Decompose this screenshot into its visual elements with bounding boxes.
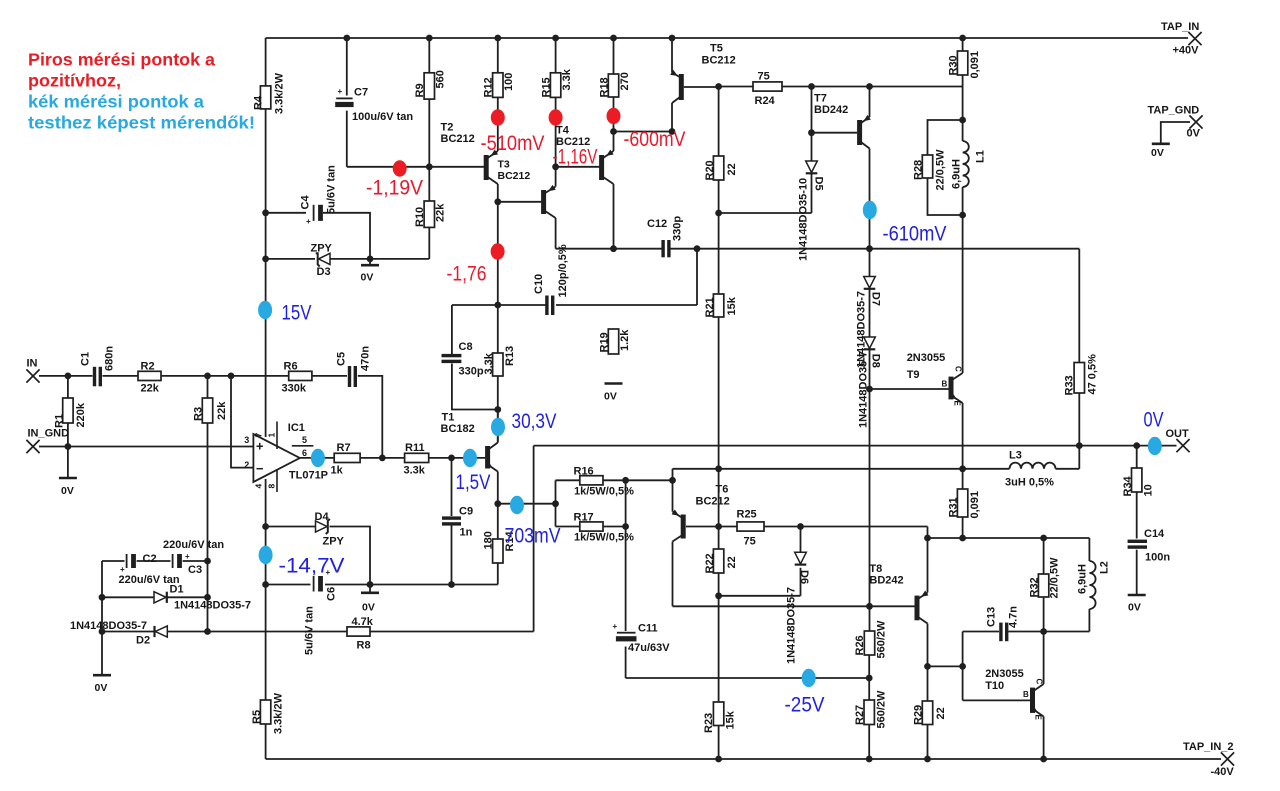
wire R34 top [1136, 446, 1138, 468]
junction ZPY row [262, 256, 269, 263]
svg-text:C5: C5 [336, 352, 348, 366]
svg-text:6: 6 [302, 448, 307, 458]
junction R9/R10 base row [426, 163, 433, 170]
transistor T5 BC212 [670, 70, 684, 103]
wire C2 row [102, 560, 125, 562]
wire R3 bottom long [207, 423, 209, 561]
svg-text:C8: C8 [459, 341, 473, 353]
svg-text:0,091: 0,091 [969, 491, 981, 519]
wire D1 row right [167, 596, 207, 598]
svg-text:Piros mérési pontok a: Piros mérési pontok a [28, 50, 215, 70]
transistor T8 BD242 [915, 591, 929, 624]
svg-text:R11: R11 [405, 442, 425, 454]
resistor R27 [854, 690, 888, 729]
capacitor C3 [172, 552, 202, 576]
ground under C14 [1128, 595, 1146, 614]
wire R26 bottom [868, 655, 870, 678]
svg-text:IN: IN [27, 358, 38, 370]
svg-text:330p: 330p [459, 366, 484, 378]
svg-text:BC212: BC212 [696, 496, 730, 508]
svg-text:C7: C7 [354, 87, 368, 99]
svg-text:0V: 0V [362, 602, 375, 614]
svg-text:1k/5W/0,5%: 1k/5W/0,5% [574, 486, 634, 498]
svg-text:C4: C4 [300, 195, 312, 210]
diode D1 [154, 584, 251, 612]
svg-text:D4: D4 [315, 511, 330, 523]
wire op-amp pin4 to D4 node [265, 479, 267, 527]
wire R31 bottom [962, 517, 964, 538]
svg-text:T4: T4 [556, 125, 570, 137]
wire C6 row [266, 584, 311, 586]
wire T1 collector up [497, 410, 499, 443]
svg-text:2N3055: 2N3055 [907, 352, 946, 364]
wire bias column to T8 base row [869, 389, 871, 606]
wire R32 top [1043, 538, 1045, 574]
svg-text:560/2W: 560/2W [876, 690, 888, 729]
junction T9 emitter / L3 row [959, 465, 966, 472]
test point red -1,76 [491, 243, 505, 259]
svg-text:220u/6V tan: 220u/6V tan [163, 539, 224, 551]
junction C4 / R4 column [262, 209, 269, 216]
junction T10 cell row [959, 663, 966, 670]
wire D8 down to T9 base node [869, 349, 871, 389]
wire C4 row right [323, 213, 370, 259]
svg-text:D8: D8 [870, 354, 882, 368]
svg-text:15V: 15V [282, 301, 313, 325]
svg-text:R32: R32 [1029, 577, 1041, 597]
svg-text:R28: R28 [913, 160, 925, 180]
svg-text:kék mérési pontok a: kék mérési pontok a [28, 92, 204, 112]
svg-text:BC212: BC212 [702, 55, 736, 67]
svg-text:0V: 0V [1151, 147, 1164, 159]
svg-text:75: 75 [744, 536, 756, 548]
wire R4 column to C4 node [265, 109, 267, 213]
resistor R19 [599, 329, 632, 354]
junction top bus / R12 [494, 35, 501, 42]
svg-text:703mV: 703mV [505, 524, 562, 548]
svg-text:T5: T5 [710, 43, 723, 55]
test point blue op-amp out [311, 449, 325, 467]
svg-text:T1: T1 [442, 412, 455, 424]
wire D5 cathode down [811, 173, 813, 213]
wire R22 to R23 [718, 596, 720, 702]
svg-text:15k: 15k [725, 710, 737, 729]
svg-text:pozitívhoz,: pozitívhoz, [28, 71, 121, 91]
svg-text:4.7n: 4.7n [1008, 606, 1020, 628]
svg-text:7: 7 [254, 433, 264, 438]
test point blue -25V [802, 669, 816, 687]
wire R32 bottom [1043, 597, 1045, 684]
junction op-amp pin4 / D4 [262, 523, 269, 530]
wire R16 right link [603, 479, 673, 481]
wire R1 bottom [67, 423, 69, 447]
test point blue 703mV [510, 496, 524, 514]
svg-text:22k: 22k [216, 401, 228, 420]
svg-text:1n: 1n [460, 527, 473, 539]
wire R18 top [613, 38, 615, 74]
resistor R22 [704, 549, 738, 574]
wire R5 to bottom bus [265, 724, 267, 759]
svg-text:22/0,5W: 22/0,5W [935, 149, 947, 191]
wire T1 emitter down [497, 472, 499, 504]
wire R14 column [497, 504, 499, 539]
wire R12 top [497, 38, 499, 73]
svg-text:R31: R31 [948, 497, 960, 517]
junction top bus / T5 [669, 35, 676, 42]
wire L2 bottom link [1088, 609, 1090, 632]
diode D6 [786, 552, 811, 664]
wire D4 row right [330, 527, 371, 585]
wire R21 bottom long [718, 317, 720, 527]
svg-text:22k: 22k [141, 383, 160, 395]
junction R2 / R3 [204, 373, 211, 380]
wire C2 column [101, 561, 103, 675]
junction C9 bottom [448, 581, 455, 588]
wire T6 cell top row [673, 468, 1010, 470]
svg-text:-40V: -40V [1211, 766, 1235, 778]
wire R17 right link [603, 526, 626, 528]
wire R22-D6 row [719, 595, 801, 597]
svg-text:22: 22 [935, 707, 947, 719]
svg-text:TAP_IN_2: TAP_IN_2 [1183, 741, 1234, 753]
wire R8 row left [102, 631, 154, 633]
wire R14 bottom [497, 563, 499, 585]
wire C2 to C3 [137, 560, 171, 562]
wire R12 to T3 emitter [497, 97, 499, 151]
resistor R2 [138, 361, 161, 395]
diode D7 [856, 277, 882, 369]
wire D6 top [800, 527, 802, 552]
svg-text:22k: 22k [435, 203, 447, 222]
terminal TAP_IN [1161, 21, 1202, 57]
capacitor C10 [533, 244, 569, 315]
wire T4 collector down [613, 184, 615, 249]
wire L1 top link [962, 120, 964, 141]
wire R3 top [207, 376, 209, 398]
resistor R23 [703, 702, 737, 733]
capacitor C7 [335, 87, 413, 124]
wire C12 row [556, 248, 662, 250]
svg-text:4: 4 [254, 484, 264, 489]
svg-text:C: C [954, 366, 963, 372]
junction D8 column / T8 base / R26 [866, 603, 873, 610]
svg-text:+: + [306, 217, 311, 226]
wire R2 to R6 [161, 375, 289, 377]
junction D2 row right [204, 628, 211, 635]
wire output corner down [533, 446, 535, 632]
wire R4 column to ZPY node [265, 213, 267, 259]
transistor T4 BC212 [599, 150, 614, 184]
wire T7 base row [812, 132, 858, 134]
wire R30 to L1 top node [962, 75, 964, 120]
wire L3 right riser [1078, 446, 1080, 469]
junction C6 row left [262, 581, 269, 588]
svg-text:100: 100 [503, 73, 515, 91]
svg-text:BD242: BD242 [869, 575, 903, 587]
svg-text:R19: R19 [599, 332, 611, 352]
svg-text:R23: R23 [703, 713, 715, 733]
wire T9 base row [870, 388, 949, 390]
junction top bus / R18 [610, 35, 617, 42]
svg-text:TL071P: TL071P [289, 469, 328, 481]
svg-text:-14,7V: -14,7V [279, 554, 346, 578]
svg-text:0V: 0V [1187, 128, 1201, 140]
test point red -510mV [491, 109, 505, 125]
resistor R3 [193, 398, 229, 423]
wire T7 collector down [869, 149, 871, 277]
test point blue -14,7V [259, 546, 273, 564]
svg-text:R7: R7 [337, 442, 351, 454]
svg-text:C6: C6 [326, 587, 338, 601]
junction bottom bus / R29 [924, 756, 931, 763]
wire C1 to R2 [103, 375, 139, 377]
resistor R4 [253, 72, 286, 114]
junction T4 base [552, 163, 559, 170]
resistor R15 [541, 68, 574, 97]
svg-text:330k: 330k [282, 383, 307, 395]
capacitor C8 [442, 341, 484, 378]
junction R16 / T6 emitter [669, 477, 676, 484]
svg-text:C3: C3 [188, 564, 202, 576]
svg-text:R20: R20 [704, 160, 716, 180]
wire R25 to T8 emitter corner [764, 526, 928, 528]
svg-text:220k: 220k [75, 402, 87, 427]
wire R29 bottom [927, 725, 929, 760]
wire -600mV node to T4 emitter [613, 132, 615, 152]
svg-text:30,3V: 30,3V [512, 409, 558, 433]
svg-text:R25: R25 [737, 509, 757, 521]
wire T4 base row [556, 166, 600, 168]
junction D2 row left [99, 628, 106, 635]
wire C11 column [625, 527, 627, 632]
svg-text:3.3k: 3.3k [561, 68, 573, 90]
capacitor C6 [304, 568, 338, 655]
ground bottom-left [93, 675, 111, 694]
svg-text:330p: 330p [672, 216, 684, 241]
svg-text:100u/6V tan: 100u/6V tan [352, 111, 413, 123]
svg-text:B: B [942, 380, 948, 389]
ground under R19 [604, 384, 623, 403]
wire R13 to T1 collector [497, 376, 499, 443]
transistor T10 2N3055 [1023, 679, 1044, 721]
svg-text:100n: 100n [1145, 552, 1170, 564]
svg-text:T8: T8 [869, 563, 882, 575]
resistor R5 [251, 692, 285, 734]
junction R31 bottom [959, 535, 966, 542]
wire D6 bottom [800, 568, 802, 596]
svg-text:T6: T6 [716, 484, 729, 496]
wire ZPY row right [330, 258, 429, 260]
svg-text:3.3k: 3.3k [404, 465, 426, 477]
svg-text:L1: L1 [975, 150, 987, 163]
svg-text:T7: T7 [814, 93, 827, 105]
svg-text:22/0,5W: 22/0,5W [1049, 557, 1061, 599]
wire ZPY row [266, 258, 315, 260]
svg-text:D5: D5 [813, 177, 825, 191]
junction -600mV [610, 128, 617, 135]
svg-text:+: + [613, 622, 618, 631]
wire R9 top [428, 38, 430, 73]
wire R1 ground stub [67, 447, 69, 478]
junction top bus / R9 [426, 35, 433, 42]
resistor R14 [483, 530, 517, 563]
wire IN_GND row [39, 446, 253, 448]
op-amp IC1 TL071P [244, 422, 328, 493]
transistor T7 BD242 [857, 115, 871, 149]
wire C10 riser [696, 249, 698, 305]
junction T7 emitter [866, 83, 873, 90]
capacitor C11 [613, 622, 671, 654]
junction IN_GND / R1 [65, 443, 72, 450]
wire R20 bottom to D5 row [718, 180, 720, 294]
svg-text:R34: R34 [1122, 475, 1134, 496]
svg-text:T2: T2 [441, 122, 454, 134]
wire R20 top [718, 87, 720, 157]
svg-text:47u/63V: 47u/63V [628, 642, 670, 654]
wire base row to R10 [428, 167, 430, 201]
wire top supply bus [266, 37, 1188, 39]
capacitor C4 [300, 165, 338, 226]
junction top bus / R15 [552, 35, 559, 42]
wire D5 node to R30 [870, 86, 963, 88]
wire R24 right to D5 node [782, 86, 870, 88]
wire T6 base to R25 [686, 526, 737, 528]
wire T5 emitter up [671, 38, 673, 73]
wire T8 base row [673, 605, 915, 607]
svg-text:D2: D2 [136, 635, 150, 647]
wire 15V rail to op-amp pin7 [265, 259, 267, 437]
wire C10 row [452, 304, 548, 306]
test point blue 15V [258, 301, 272, 319]
zener D3 ZPY [311, 243, 333, 279]
ground C6 row [361, 593, 379, 614]
svg-text:R17: R17 [574, 512, 594, 524]
svg-text:6,9uH: 6,9uH [1077, 564, 1089, 594]
junction T5 collector [669, 128, 676, 135]
wire C8 top [451, 305, 453, 355]
svg-text:0V: 0V [604, 391, 617, 403]
wire T6 emitter column [672, 469, 674, 512]
wire R18 to -600mV node [613, 97, 615, 132]
svg-text:5u/6V tan: 5u/6V tan [326, 165, 338, 214]
wire main output row [534, 445, 1177, 447]
svg-text:R16: R16 [574, 466, 594, 478]
junction bottom bus / T10 emitter [1040, 756, 1047, 763]
wire R16R17 junction column [625, 480, 627, 526]
wire 703mV row [498, 503, 556, 505]
svg-text:R1: R1 [54, 414, 66, 428]
svg-text:120p/0,5%: 120p/0,5% [557, 244, 569, 297]
svg-text:2N3055: 2N3055 [985, 668, 1024, 680]
wire D5 row [719, 212, 812, 214]
wire R31 bottom row [928, 537, 1090, 539]
wire C5 to corner [358, 376, 383, 458]
svg-text:C1: C1 [80, 352, 92, 366]
terminal OUT [1166, 428, 1190, 452]
wire R27 bottom [868, 725, 870, 760]
svg-text:T3: T3 [498, 159, 510, 171]
svg-text:D3: D3 [317, 266, 331, 278]
svg-text:1N4148DO35-10: 1N4148DO35-10 [798, 178, 810, 261]
junction bottom bus / R27 [866, 756, 873, 763]
svg-text:8: 8 [267, 484, 277, 489]
resistor R9 [414, 70, 447, 99]
capacitor C2 [119, 539, 225, 586]
svg-text:1k/5W/0,5%: 1k/5W/0,5% [574, 532, 634, 544]
svg-text:R12: R12 [483, 77, 495, 97]
svg-text:0V: 0V [95, 682, 108, 694]
wire T10 base row [963, 699, 1030, 701]
svg-text:BC212: BC212 [498, 170, 531, 182]
svg-text:3.3k: 3.3k [483, 352, 495, 374]
wire R33 top [1078, 249, 1080, 363]
junction R22 top / R25 row [715, 523, 722, 530]
wire C9 bottom [451, 525, 453, 584]
wire C13 row right [1009, 631, 1090, 633]
resistor R1 [54, 398, 88, 428]
wire T3 collector to T2 base node [497, 184, 499, 202]
svg-text:BD242: BD242 [814, 104, 848, 116]
ground TAP_GND [1151, 144, 1170, 159]
svg-text:T9: T9 [907, 369, 920, 381]
wire R6 to C5 [312, 375, 347, 377]
wire R34 to C14 [1136, 492, 1138, 539]
svg-text:C: C [1035, 679, 1044, 685]
svg-text:L2: L2 [1099, 561, 1111, 574]
wire R17 left link [556, 526, 580, 528]
svg-text:R21: R21 [704, 297, 716, 317]
junction feedback [228, 373, 235, 380]
svg-text:1,5V: 1,5V [456, 470, 492, 494]
wire R9 bottom to base row [428, 99, 430, 167]
svg-text:C13: C13 [986, 607, 998, 627]
junction D5 top [808, 83, 815, 90]
svg-text:0V: 0V [1144, 408, 1164, 432]
resistor R31 [948, 489, 982, 519]
svg-text:D6: D6 [798, 570, 810, 584]
wire -1,19V row [347, 166, 484, 168]
diode D2 [70, 620, 167, 647]
svg-text:-1,76: -1,76 [447, 262, 487, 286]
wire R22 bottom [718, 573, 720, 596]
wire -25V row [626, 677, 870, 679]
svg-text:R13: R13 [504, 346, 516, 366]
svg-text:R4: R4 [253, 95, 265, 110]
wire D5 column [811, 87, 813, 161]
svg-text:R27: R27 [854, 705, 866, 725]
svg-text:-1,19V: -1,19V [366, 176, 424, 200]
svg-text:BC182: BC182 [441, 423, 475, 435]
wire L2 top link [1088, 538, 1090, 561]
resistor R8 [347, 616, 374, 652]
svg-text:R33: R33 [1064, 375, 1076, 395]
junction C6 row ground [367, 581, 374, 588]
svg-text:1N4148DO35-7: 1N4148DO35-7 [70, 620, 147, 632]
terminal IN_GND [26, 428, 69, 454]
svg-text:TAP_GND: TAP_GND [1148, 105, 1200, 117]
junction IN / R1 [65, 373, 72, 380]
test point red -1,16V [549, 109, 563, 125]
svg-text:470n: 470n [360, 346, 372, 371]
junction T8 emitter / R31 row [924, 535, 931, 542]
wire T10 emitter down [1043, 717, 1045, 760]
svg-text:560/2W: 560/2W [876, 620, 888, 659]
resistor R25 [737, 509, 765, 548]
diode D8 [858, 337, 882, 428]
svg-text:ZPY: ZPY [311, 243, 333, 255]
wire R8 row right [370, 631, 534, 633]
wire C6 ground stub [369, 585, 371, 593]
